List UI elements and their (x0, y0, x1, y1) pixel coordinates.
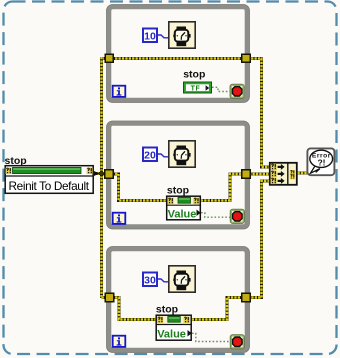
conditional stop terminal loop2 (230, 209, 244, 223)
error wire: loop3 row up to merge row3 (102, 181, 270, 320)
svg-text:Value: Value (168, 208, 197, 220)
svg-text:Value: Value (157, 329, 186, 341)
numeric wire loop2 (158, 154, 169, 157)
error wire: left trunk (100, 57, 103, 298)
svg-text:20: 20 (144, 150, 156, 162)
stop boolean terminal TF loop1 (184, 82, 212, 93)
error wire: loop1 row and drop to merge row1 (102, 59, 270, 168)
merge errors node (270, 162, 297, 185)
invoke node output arrow (94, 171, 99, 176)
iteration terminal i loop2 (113, 213, 126, 224)
svg-text:TF: TF (191, 86, 201, 93)
numeric constant 10 (143, 29, 157, 43)
svg-text:stop: stop (167, 184, 189, 196)
numeric wire loop3 (158, 279, 169, 282)
svg-text:stop: stop (156, 303, 178, 315)
svg-text:Reinit To Default: Reinit To Default (9, 179, 90, 193)
while loop 1 frame (107, 5, 250, 103)
svg-text:10: 10 (144, 31, 156, 43)
tunnel loop3 left (105, 293, 114, 302)
boolean dotted wire loop2 (201, 213, 230, 218)
tunnel loop1 left (105, 54, 113, 62)
error wire: merge output to error handler (298, 172, 308, 175)
boolean dotted wire loop1 (212, 87, 230, 91)
wait ms icon loop1 (169, 22, 195, 48)
tunnel loop2 left (105, 170, 114, 179)
error wire: invoke node output stub (94, 172, 102, 175)
stop Value property node loop3 (156, 315, 193, 340)
stop Value property node loop2 (166, 196, 201, 220)
tunnel loop2 right (242, 170, 251, 179)
tunnel loop1 right (242, 54, 251, 62)
svg-text:stop: stop (183, 68, 205, 80)
simple error handler icon (307, 148, 334, 175)
wait ms icon loop3 (169, 266, 195, 292)
numeric wire loop1 (158, 35, 169, 38)
conditional stop terminal loop3 (230, 335, 244, 349)
wait ms icon loop2 (169, 141, 195, 167)
numeric constant 20 (143, 148, 157, 162)
invoke node Reinit To Default (5, 166, 95, 194)
while loop 2 frame (107, 121, 250, 229)
numeric constant 30 (143, 273, 157, 287)
error wire: loop2 row to merge row2 (102, 174, 270, 201)
wire junction at invoke node output (99, 171, 105, 177)
conditional stop terminal loop1 (230, 84, 244, 98)
svg-text:30: 30 (144, 275, 156, 287)
svg-text:?!: ?! (317, 158, 325, 168)
boolean dotted wire loop3 (192, 333, 230, 341)
tunnel loop3 right (242, 293, 251, 302)
iteration terminal i loop1 (113, 86, 126, 97)
iteration terminal i loop3 (113, 336, 126, 347)
while loop 3 frame (107, 247, 250, 353)
